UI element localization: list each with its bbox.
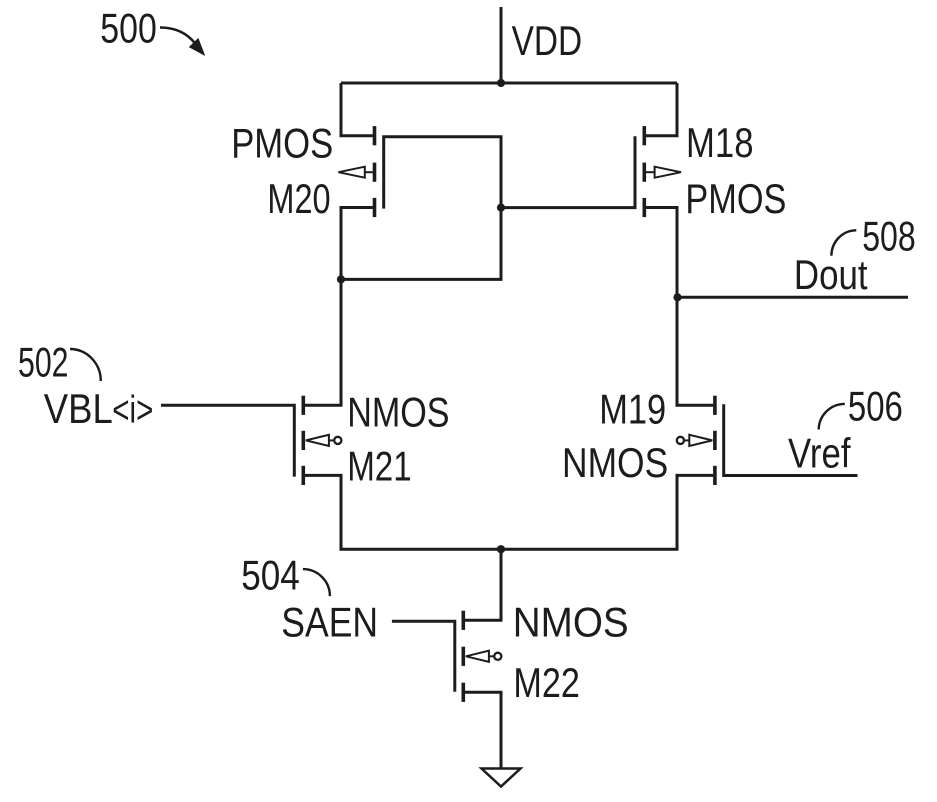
transistor M19 channel dashes	[713, 396, 717, 415]
svg-text:Vref: Vref	[788, 429, 851, 476]
node M20 drain junction	[337, 275, 345, 283]
transistor M22 channel dashes	[461, 611, 465, 630]
node VDD junction	[497, 79, 505, 87]
transistor M20 channel dashes	[303, 126, 715, 702]
wire SAEN to M22 gate	[392, 621, 455, 691]
node gate cross junction	[497, 204, 505, 212]
wire VDD stem	[500, 7, 503, 83]
wire tail rail M21 source to M19 source	[305, 475, 713, 549]
svg-text:VDD: VDD	[512, 17, 583, 64]
wire left drop to M20 source	[341, 83, 373, 136]
wire M18 gate to center node	[501, 136, 635, 207]
svg-text:M19: M19	[599, 385, 666, 432]
bulk arrow M21 (NMOS, points left, circle tail)	[306, 435, 342, 446]
svg-text:506: 506	[848, 383, 903, 430]
svg-text:M21: M21	[347, 442, 412, 489]
wire VBL input to M21 gate	[161, 405, 294, 476]
svg-text:NMOS: NMOS	[347, 389, 449, 436]
svg-text:<i>: <i>	[112, 389, 153, 432]
leader 502	[70, 349, 101, 381]
wire tail stem to M22 drain	[465, 549, 501, 620]
svg-text:504: 504	[241, 551, 300, 598]
wire M20 gate to node (diode connection)	[341, 137, 501, 280]
leader 504	[303, 569, 330, 596]
wire right drop to M18 source	[646, 83, 677, 136]
bulk arrow M19 (NMOS, points right, circle tail)	[677, 435, 712, 446]
svg-text:NMOS: NMOS	[562, 439, 668, 486]
svg-text:PMOS: PMOS	[685, 175, 786, 222]
transistor M18 channel dashes	[642, 126, 646, 145]
svg-text:VBL: VBL	[44, 385, 113, 432]
svg-text:M22: M22	[513, 659, 580, 706]
wire Dout output	[677, 296, 908, 299]
ground	[482, 769, 521, 787]
svg-text:NMOS: NMOS	[513, 598, 629, 645]
svg-text:M20: M20	[267, 175, 330, 222]
wire M19 gate to Vref	[724, 404, 858, 475]
wire top VDD rail	[341, 82, 677, 85]
wire M22 source to ground	[465, 692, 501, 768]
svg-text:502: 502	[18, 338, 69, 385]
leader 508	[831, 230, 856, 255]
bulk arrow M22 (NMOS, points left, circle tail)	[466, 651, 502, 662]
wire M20 drain to M21 drain (left column)	[305, 208, 373, 406]
svg-text:Dout: Dout	[794, 251, 868, 298]
svg-text:PMOS: PMOS	[231, 120, 333, 167]
node tail junction	[497, 545, 505, 553]
leader 506	[819, 404, 845, 430]
svg-text:M18: M18	[686, 119, 754, 166]
node Dout junction	[673, 293, 681, 301]
svg-text:508: 508	[862, 213, 916, 260]
svg-text:500: 500	[100, 5, 157, 52]
leader arrow 500	[160, 28, 203, 54]
transistor M21 channel dashes	[301, 396, 305, 415]
svg-text:SAEN: SAEN	[281, 598, 378, 645]
wire M18 drain to M19 drain (right column)	[646, 208, 713, 406]
bulk arrow M20 (PMOS, points left)	[338, 167, 373, 178]
bulk arrow M18 (PMOS, points right)	[646, 167, 681, 178]
